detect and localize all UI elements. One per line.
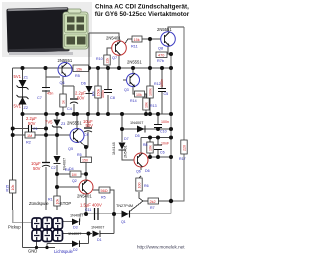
wire C9 column x88 [86, 114, 88, 147]
svg-text:R5: R5 [101, 196, 106, 200]
wire GND bottom [23, 241, 56, 248]
wire Q6 emitter / R6 [139, 167, 143, 201]
svg-text:D2: D2 [73, 248, 78, 252]
svg-text:C4: C4 [67, 107, 72, 111]
wire left vertical x13 [12, 68, 14, 210]
svg-text:15k: 15k [134, 38, 140, 42]
wire C5 column x162 [161, 68, 163, 114]
svg-text:D1: D1 [97, 238, 102, 242]
wire R col x98 [97, 68, 99, 114]
wire Q3 leads [123, 68, 152, 94]
capacitor C9 10uF column x88 [83, 119, 93, 137]
svg-text:C7: C7 [37, 96, 42, 100]
wire R11 row y39 [125, 39, 162, 44]
wire row y137.5 [141, 137, 171, 139]
svg-text:Z3: Z3 [61, 122, 65, 126]
wire D7 column x122 [122, 114, 135, 160]
svg-text:10k: 10k [11, 185, 15, 191]
svg-text:1N4007: 1N4007 [68, 232, 81, 236]
svg-text:R10: R10 [96, 57, 103, 61]
zener Z1 5V1 [14, 74, 29, 90]
svg-text:2N5401: 2N5401 [124, 145, 128, 158]
svg-text:-STOP: -STOP [59, 201, 72, 206]
svg-text:R5: R5 [77, 153, 82, 157]
svg-text:http://www.monelek.net: http://www.monelek.net [137, 245, 185, 250]
svg-text:470: 470 [158, 54, 164, 58]
wire R16 column x150 [149, 39, 151, 114]
svg-text:10k: 10k [149, 145, 153, 151]
title [95, 4, 190, 19]
capacitor C8 column x108 [101, 90, 115, 101]
svg-text:R5: R5 [75, 74, 80, 78]
capacitor C5 column x162 [158, 79, 168, 96]
resistor R5c 56 row y190 [99, 187, 110, 200]
svg-text:Q6: Q6 [136, 170, 141, 174]
svg-text:C6: C6 [160, 151, 165, 155]
zener Z3 7V5 column x57 [45, 120, 65, 129]
diode D6 column x89 [81, 82, 93, 94]
resistor R10 [96, 55, 110, 65]
wire x46 lower column [45, 114, 47, 210]
svg-text:1N4007: 1N4007 [130, 121, 143, 125]
svg-text:1.5µF 400V: 1.5µF 400V [80, 203, 102, 208]
svg-text:5V1: 5V1 [14, 74, 22, 79]
wire D1 row [63, 190, 115, 234]
svg-text:Q5: Q5 [68, 147, 73, 151]
svg-text:50V: 50V [77, 96, 85, 101]
diode D3 1N4007 [70, 214, 83, 230]
wire Q2 collector row [93, 190, 114, 214]
transistor Q6 2N5401 [124, 145, 149, 173]
resistor R15 on x13 [6, 180, 16, 193]
wire right inner vertical x171 [170, 54, 172, 201]
wire Z2/D4 column x57 [56, 114, 58, 210]
svg-text:R4: R4 [65, 168, 70, 172]
wire Q2 emitter [85, 194, 87, 214]
wire mid bus [23, 113, 172, 115]
wire R13 column x146 [145, 94, 147, 114]
svg-text:C8: C8 [110, 96, 115, 100]
svg-text:5V1: 5V1 [14, 104, 22, 109]
svg-text:7V5: 7V5 [45, 120, 53, 125]
svg-text:50V: 50V [28, 121, 36, 126]
svg-text:220: 220 [183, 145, 187, 151]
svg-text:Q3: Q3 [124, 88, 129, 92]
resistor R13 column x146 [143, 98, 157, 110]
svg-text:R7b: R7b [157, 59, 164, 63]
svg-text:R11: R11 [131, 45, 138, 49]
svg-text:R8: R8 [143, 143, 147, 147]
capacitor C10 column x158 [154, 120, 169, 134]
transistor Q8 2N5551 [157, 27, 175, 51]
svg-text:2N5551: 2N5551 [157, 27, 172, 32]
wire C3 row y128.5 [13, 128, 46, 130]
diode D4 1N4007 column x57 [54, 156, 74, 171]
svg-text:15k: 15k [76, 67, 82, 71]
svg-text:Q7: Q7 [112, 56, 117, 60]
wire right outer vertical x184 [171, 27, 184, 201]
svg-text:56Ω: 56Ω [101, 189, 108, 193]
svg-text:10k: 10k [145, 102, 149, 108]
svg-text:D7: D7 [124, 137, 129, 141]
svg-text:1N4007: 1N4007 [91, 226, 104, 230]
svg-text:10nF: 10nF [161, 142, 170, 146]
resistor R4 column x98 [92, 86, 102, 98]
svg-text:R1: R1 [48, 198, 53, 202]
diode D2 1N4007 [68, 232, 81, 252]
svg-text:Lichtspule: Lichtspule [54, 249, 74, 254]
resistor R16 column x150 [147, 82, 161, 98]
wire D5 row y129 [122, 128, 171, 130]
svg-text:D6: D6 [81, 82, 86, 86]
svg-text:1M: 1M [27, 134, 32, 138]
transistor Q7 2N5401 [106, 36, 126, 61]
svg-text:C1: C1 [33, 127, 38, 131]
capacitor C7 45n [37, 88, 53, 101]
resistor R1b 2k row y201 [148, 198, 159, 210]
svg-text:Z1: Z1 [24, 76, 28, 80]
svg-text:D6: D6 [145, 169, 150, 173]
wire C7 column x46 [46, 68, 60, 114]
svg-text:1M: 1M [72, 173, 77, 177]
wire Q5 leads [77, 114, 86, 181]
wire SCR gate diagonal [130, 201, 144, 212]
svg-text:100n: 100n [160, 79, 164, 87]
svg-text:Q4: Q4 [60, 81, 65, 85]
wire R8 column [149, 138, 151, 158]
resistor R11 [131, 36, 142, 49]
svg-text:1N4007: 1N4007 [70, 214, 83, 218]
svg-text:China AC CDI Zündschaltgerät,: China AC CDI Zündschaltgerät, [95, 4, 189, 11]
svg-text:Q8: Q8 [158, 47, 163, 51]
svg-text:TN27P4M: TN27P4M [116, 204, 133, 208]
wire D2 row [47, 234, 89, 244]
svg-text:22k: 22k [106, 58, 110, 64]
resistor R7b 470 [156, 52, 167, 63]
svg-text:Pickup: Pickup [8, 225, 21, 230]
resistor R4b row y174 [65, 168, 81, 177]
svg-text:2N5401: 2N5401 [77, 194, 92, 199]
diode D5 1N4007 row y129 [130, 121, 145, 138]
wire D6 column x89 [88, 33, 90, 114]
svg-text:D4: D4 [69, 167, 74, 171]
svg-text:100: 100 [138, 183, 142, 189]
svg-text:D3: D3 [73, 226, 78, 230]
resistor R14 row y94 [130, 91, 145, 103]
transistor Q3 2N5551 [124, 60, 142, 93]
svg-text:Zündspule: Zündspule [29, 201, 49, 206]
transistor Q5 2N5551 [67, 121, 84, 152]
wire Q4 emitter columns [63, 76, 74, 114]
svg-text:150: 150 [82, 159, 88, 163]
svg-text:C11: C11 [85, 208, 91, 212]
diode D6b and resistor R6 on emitter [136, 169, 150, 191]
svg-text:100k: 100k [149, 88, 153, 96]
wire Q7 leads [89, 33, 119, 68]
svg-text:R14: R14 [130, 99, 137, 103]
transistor Q2 2N5401 [72, 179, 93, 199]
svg-text:10k: 10k [136, 93, 142, 97]
svg-text:C9: C9 [84, 133, 89, 137]
svg-text:R7: R7 [150, 206, 155, 210]
wire row y174 [57, 173, 86, 175]
wire Q5 base row y135 [13, 134, 71, 136]
svg-text:R15: R15 [6, 185, 10, 192]
svg-text:Q2: Q2 [72, 179, 77, 183]
diode D7 1N4148 column x122 [112, 137, 129, 155]
svg-text:D5: D5 [135, 134, 140, 138]
svg-text:C2: C2 [51, 166, 56, 170]
svg-text:R13: R13 [150, 104, 157, 108]
wire D3 row [63, 221, 81, 223]
capacitor C11 1.5uF 400V [80, 203, 102, 221]
transistor Q4 2N5551 [58, 58, 73, 85]
svg-text:100n: 100n [161, 120, 169, 124]
wire HV light path [80, 201, 171, 222]
capacitor C1 10uF on x46 [31, 161, 56, 171]
svg-text:für GY6 50-125cc Viertaktmotor: für GY6 50-125cc Viertaktmotor [95, 11, 190, 18]
svg-text:50V: 50V [86, 123, 94, 128]
resistor R1 column x57 [48, 196, 60, 206]
capacitor C4 2.2uF [67, 91, 86, 112]
svg-text:1N4148: 1N4148 [112, 142, 116, 155]
wire row y157 [148, 156, 171, 158]
CDI unit photo [2, 2, 92, 57]
svg-text:50V: 50V [33, 166, 41, 171]
wire Q2 base row [57, 186, 79, 188]
wire pickup [13, 210, 32, 223]
svg-text:C5: C5 [164, 92, 169, 96]
svg-text:45n: 45n [47, 92, 53, 96]
svg-text:R2: R2 [26, 141, 31, 145]
wire Q6 collector [140, 138, 142, 154]
svg-text:R4: R4 [92, 91, 96, 96]
wire zener/GND vertical x22.5 [22, 68, 24, 248]
connector block pins [32, 218, 63, 242]
svg-text:2N5551: 2N5551 [127, 60, 142, 65]
svg-text:2N5551: 2N5551 [58, 58, 73, 63]
svg-text:Z2: Z2 [24, 106, 28, 110]
svg-text:100n: 100n [101, 90, 105, 98]
resistor R2 row y135 [25, 132, 35, 145]
capacitor C6 column x158 [154, 142, 170, 155]
svg-text:R6: R6 [144, 184, 149, 188]
diode D1 1N4007 [91, 226, 104, 243]
wire C10 column [157, 114, 159, 129]
svg-text:C10: C10 [160, 130, 167, 134]
svg-text:2k2: 2k2 [150, 200, 156, 204]
svg-text:R17: R17 [179, 157, 186, 161]
svg-text:1k: 1k [62, 100, 66, 104]
wire C6 column [157, 138, 159, 158]
resistor R3a column x63 [60, 94, 66, 107]
svg-text:2N5551: 2N5551 [67, 121, 82, 126]
thyristor Q1 [116, 204, 133, 224]
resistor R8 column x150 [143, 142, 153, 153]
svg-text:GND: GND [28, 249, 37, 254]
svg-text:2N5401: 2N5401 [106, 36, 121, 41]
wire Q8 leads [168, 27, 184, 54]
capacitor C3 on row y128.5 [26, 116, 38, 132]
wire C8 col x108 [107, 68, 109, 114]
zener Z2 5V1 [14, 95, 29, 110]
svg-text:Q1: Q1 [121, 220, 126, 224]
resistor R9 on x184 [179, 140, 187, 161]
resistor R5b on x86 [77, 153, 92, 163]
resistor R5 in rail [73, 65, 89, 78]
wire gate row y201 [143, 200, 171, 202]
wire top rail [13, 67, 171, 69]
